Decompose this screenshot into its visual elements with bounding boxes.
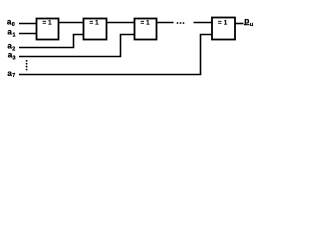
svg-text:=: = — [140, 19, 144, 26]
svg-text:7: 7 — [12, 73, 15, 79]
wire a3 to U3 lower input — [19, 35, 135, 57]
svg-text:1: 1 — [95, 19, 99, 26]
wire a2 to U2 lower input — [19, 35, 84, 48]
wire U1 output to U2 upper input — [59, 22, 84, 24]
node a3 — [8, 51, 16, 62]
svg-text:=: = — [89, 19, 93, 26]
wire into U4 upper input — [194, 22, 212, 24]
wire U4 output — [236, 23, 244, 25]
svg-text:=: = — [218, 19, 222, 26]
svg-text:u: u — [250, 22, 254, 28]
svg-text:1: 1 — [48, 19, 52, 26]
ellipsis dots (omitted stages) — [177, 22, 185, 24]
xor gate U2 — [84, 19, 107, 40]
xor gate U4 — [212, 18, 235, 40]
xor gate U3 — [135, 19, 157, 40]
svg-text:1: 1 — [13, 32, 16, 38]
svg-text:2: 2 — [12, 46, 15, 52]
xor gate U1 — [37, 19, 59, 40]
node a2 — [7, 42, 15, 53]
node p_u (odd parity output) — [244, 16, 254, 28]
node a7 — [7, 69, 15, 79]
wire U3 output — [157, 22, 174, 24]
svg-text:1: 1 — [146, 19, 150, 26]
wire a0 to U1 upper input — [19, 23, 37, 25]
wire a7 to U4 lower input — [19, 35, 212, 75]
wire U2 output to U3 upper input — [107, 22, 135, 24]
svg-text:0: 0 — [12, 22, 15, 28]
wire a1 to U1 lower input — [19, 33, 37, 35]
vertical ellipsis (omitted inputs) — [26, 60, 28, 71]
svg-text:1: 1 — [224, 19, 228, 26]
svg-text:3: 3 — [13, 55, 16, 61]
node a1 — [7, 28, 15, 39]
svg-text:=: = — [42, 19, 46, 26]
node a0 — [7, 17, 15, 28]
